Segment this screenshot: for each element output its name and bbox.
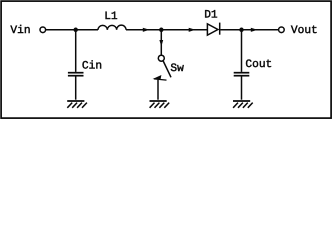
junction node at Cout tap [239,28,244,33]
flow arrow before D1 [189,28,196,32]
svg-text:Vout: Vout [291,25,318,37]
node Vin terminal [40,27,46,33]
wire switch branch vertical [160,30,162,55]
switch Sw lower contact arrowhead [153,75,162,80]
wire Cout to ground [241,77,243,100]
wire Cin to ground [75,77,77,100]
svg-text:D1: D1 [204,10,218,22]
wire Cout branch vertical top [241,30,243,72]
svg-text:Sw: Sw [170,63,184,75]
capacitor Cout [234,72,250,74]
wire Vin to inductor [46,29,98,31]
flow arrow into Sw [159,40,163,47]
ground (Sw) [150,101,170,108]
wire diode to Vout [221,29,279,31]
ground (Cin) [67,101,87,108]
inductor L1 [98,25,126,30]
svg-text:L1: L1 [104,11,118,23]
diode D1 [207,24,218,35]
junction node at Sw tap [159,28,164,33]
border frame [1,1,331,118]
node Vout terminal [279,27,285,33]
ground (Cout) [233,101,253,108]
switch Sw lever [163,61,171,77]
svg-text:Cout: Cout [245,59,272,71]
junction node at Cin tap [73,28,78,33]
switch Sw lower contact [154,79,167,80]
wire Cin branch vertical top [75,30,77,72]
flow arrow to Vout [251,28,258,32]
wire inductor to diode [126,29,207,31]
svg-text:Vin: Vin [10,24,30,37]
flow arrow after L1 [143,28,150,32]
switch Sw contact circle [158,55,164,61]
svg-text:Cin: Cin [82,59,102,72]
wire switch to ground [157,80,159,100]
capacitor Cin [68,72,84,74]
